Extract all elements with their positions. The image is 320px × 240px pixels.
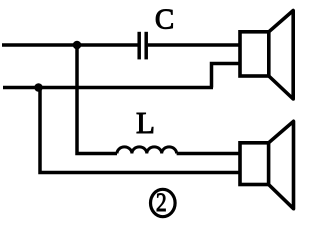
svg-text:2: 2 xyxy=(156,188,167,218)
inductor L coil xyxy=(117,147,177,154)
speaker LS2 (bottom) horn cone xyxy=(269,121,294,208)
node: junction on second wire xyxy=(34,83,43,92)
wire: top input wire left segment xyxy=(2,43,138,47)
speaker LS1 (top) horn cone xyxy=(269,11,293,100)
svg-text:L: L xyxy=(136,105,155,140)
capacitor C right plate xyxy=(144,32,148,60)
svg-text:C: C xyxy=(155,4,174,36)
wire: step up to top speaker lower terminal xyxy=(212,64,241,88)
speaker LS2 (bottom) driver body xyxy=(240,143,269,185)
wire: capacitor to top speaker xyxy=(148,43,240,47)
wire: from second junction down and right along bottom to bottom speaker xyxy=(40,88,240,173)
capacitor C left plate xyxy=(137,32,141,60)
wire: second input wire xyxy=(3,86,213,90)
node: junction on top wire xyxy=(73,41,82,50)
wire: inductor to bottom speaker xyxy=(177,152,240,156)
speaker LS1 (top) driver body xyxy=(240,32,269,76)
wire: from top junction down and right to inductor xyxy=(77,45,117,154)
figure number circle xyxy=(151,189,176,216)
